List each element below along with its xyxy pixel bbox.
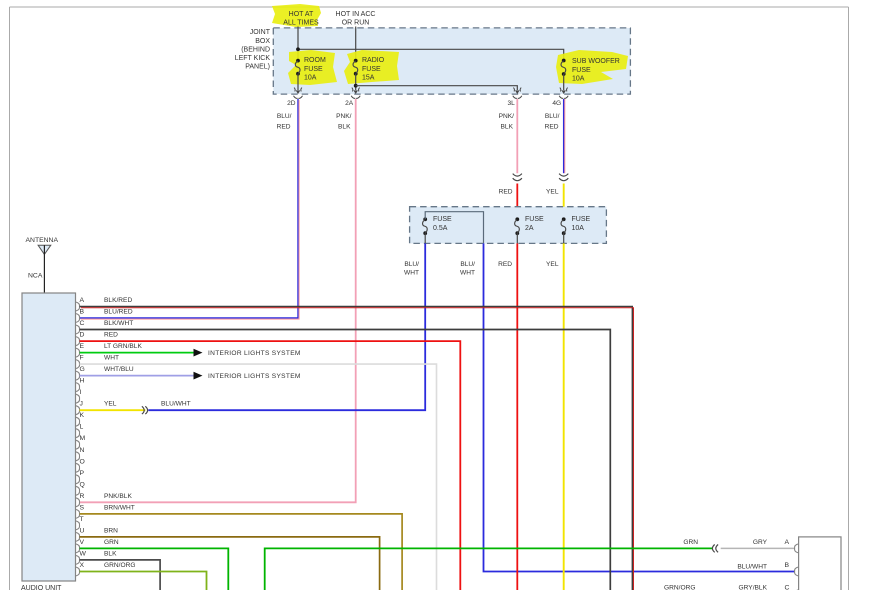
svg-text:X: X [80,562,85,569]
svg-text:N: N [80,447,85,454]
svg-text:BRN: BRN [104,527,118,534]
audio unit pin W [76,550,87,564]
svg-text:A: A [80,297,85,304]
audio unit pin B [76,309,85,323]
audio unit pin M [76,435,86,449]
svg-text:FUSE: FUSE [572,67,591,74]
svg-text:B: B [80,309,85,316]
svg-text:PNK/BLK: PNK/BLK [104,493,132,500]
audio unit pin S [76,504,85,518]
svg-text:V: V [80,539,85,546]
wire 4G BLU/RED (joint box to inline connector) [545,99,565,173]
audio unit connector block [21,293,76,590]
svg-text:GRN/ORG: GRN/ORG [104,562,136,569]
connector pin 2D [287,88,302,107]
svg-text:K: K [80,412,85,419]
wire pin X GRN/ORG (to off page bottom) [80,562,207,590]
svg-text:RED: RED [499,188,513,195]
svg-text:10A: 10A [572,225,585,232]
audio unit pin K [76,412,85,426]
svg-text:OR RUN: OR RUN [342,19,370,26]
wire pin E LT GRN/BLK to interior lights system [80,343,301,357]
svg-text:BOX: BOX [255,38,270,45]
internal jumper from fuse 0.5A top to second output [425,212,483,244]
svg-text:PNK/: PNK/ [336,113,352,120]
svg-text:U: U [80,527,85,534]
audio unit pin D [76,332,85,346]
audio unit pin J [76,401,83,415]
svg-text:S: S [80,504,85,511]
svg-text:R: R [80,493,85,500]
audio unit pin U [76,527,85,541]
inline connector: BLU/RED to YEL [559,174,568,181]
svg-text:L: L [80,424,84,431]
connector pin 2A [345,88,360,107]
svg-text:BLU/: BLU/ [545,113,560,120]
wire GRN (from off page up to inline connector) [265,539,713,590]
svg-text:GRY/BLK: GRY/BLK [739,584,768,590]
audio unit pin L [76,424,84,438]
svg-text:15A: 15A [362,75,375,82]
svg-text:F: F [80,355,84,362]
svg-text:ALL TIMES: ALL TIMES [283,19,319,26]
wire pin F WHT (to off page bottom) [80,355,437,590]
wire RED (connector to fuse 2A) [499,184,518,220]
junction node radio fuse output [354,84,358,88]
svg-text:WHT: WHT [460,270,475,277]
audio unit pin F [76,355,84,369]
svg-text:BLK/WHT: BLK/WHT [104,320,133,327]
svg-text:W: W [80,550,87,557]
label HOT AT ALL TIMES [283,11,319,27]
svg-text:YEL: YEL [104,401,117,408]
svg-text:SUB WOOFER: SUB WOOFER [572,58,620,65]
audio unit pin C [76,320,85,334]
label JOINT BOX (BEHIND LEFT KICK PANEL) [235,29,271,70]
svg-text:WHT: WHT [104,355,119,362]
svg-text:GRN/ORG: GRN/ORG [664,584,696,590]
svg-text:RADIO: RADIO [362,57,385,64]
svg-text:E: E [80,343,85,350]
svg-text:YEL: YEL [546,261,559,268]
svg-text:HOT IN ACC: HOT IN ACC [336,11,376,18]
audio unit pin H [76,378,85,392]
svg-text:(BEHIND: (BEHIND [241,46,270,53]
svg-text:2A: 2A [525,225,534,232]
svg-text:BLK: BLK [501,124,514,131]
audio unit pin A [76,297,85,311]
audio unit pin X [76,562,85,576]
wire pin S BRN/WHT (to off page bottom) [80,504,403,590]
wire: fuse 0.5A bottom lead [424,233,426,243]
svg-text:J: J [80,401,83,408]
svg-text:RED: RED [104,332,118,339]
wire pin D RED (to off page bottom) [80,332,461,590]
joint box (dashed enclosure, behind left kick panel) [273,28,630,94]
right connector block (sub woofer amplifier) [799,537,841,590]
fuse ROOM FUSE 10A [295,57,326,90]
svg-text:BRN/WHT: BRN/WHT [104,504,135,511]
svg-text:2A: 2A [345,100,354,107]
svg-text:O: O [80,458,85,465]
antenna symbol [26,237,59,293]
highlight: RADIO FUSE [344,50,399,84]
wire RED (fuse 2A output, off page bottom) [498,243,517,590]
svg-text:M: M [80,435,86,442]
svg-text:4G: 4G [552,100,561,107]
wire pin G WHT/BLU to interior lights system [80,366,301,380]
audio unit pin O [76,458,85,472]
fuse FUSE 2A [515,216,544,243]
connector pin 4G [552,88,568,107]
wire: HOT AT ALL TIMES feed [297,27,299,61]
wire GRY (connector to right connector pin A) [721,539,795,549]
right connector pin C row labels (GRN/ORG to GRY/BLK) [664,584,798,590]
svg-text:Q: Q [80,481,85,488]
svg-text:I: I [80,389,82,396]
svg-text:BLU/RED: BLU/RED [104,309,133,316]
svg-text:INTERIOR LIGHTS SYSTEM: INTERIOR LIGHTS SYSTEM [208,350,301,357]
wire BLU/WHT (fuse box jumper output to right connector pin B) [460,243,795,571]
svg-text:2D: 2D [287,100,296,107]
svg-text:H: H [80,378,85,385]
svg-text:ANTENNA: ANTENNA [26,237,59,244]
audio unit pin E [76,343,85,357]
svg-text:FUSE: FUSE [525,216,544,223]
audio unit pin R [76,493,85,507]
right connector pin B [785,562,799,576]
wire: radio fuse output bus to 3L [356,86,518,90]
svg-text:C: C [80,320,85,327]
audio unit pin T [76,516,84,530]
svg-text:T: T [80,516,84,523]
svg-text:BLK: BLK [338,124,351,131]
svg-text:BLU/: BLU/ [404,261,419,268]
svg-text:RED: RED [545,124,559,131]
wire pin W BLK (to off page bottom) [80,550,161,590]
audio unit pin N [76,447,85,461]
audio unit pin V [76,539,85,553]
audio unit pin I [76,389,82,403]
svg-text:FUSE: FUSE [362,66,381,73]
svg-text:10A: 10A [304,75,317,82]
wire 3L PNK/BLK (joint box to inline connector) [499,99,518,173]
svg-text:GRN: GRN [104,539,119,546]
svg-text:C: C [785,584,790,590]
svg-text:BLU/WHT: BLU/WHT [161,401,191,408]
fuse FUSE 0.5A [423,216,452,235]
fuse FUSE 10A [561,216,590,243]
svg-text:JOINT: JOINT [250,29,271,36]
svg-text:PNK/: PNK/ [499,113,515,120]
fuse RADIO FUSE 15A [353,57,385,90]
svg-text:BLU/: BLU/ [460,261,475,268]
highlight: HOT AT ALL TIMES [272,4,321,27]
svg-text:BLU/WHT: BLU/WHT [737,563,767,570]
svg-text:G: G [80,366,85,373]
wire: HOT IN ACC OR RUN feed [355,27,357,61]
svg-text:FUSE: FUSE [572,216,591,223]
svg-text:BLK/RED: BLK/RED [104,297,132,304]
svg-text:D: D [80,332,85,339]
svg-text:LT GRN/BLK: LT GRN/BLK [104,343,142,350]
svg-text:P: P [80,470,85,477]
svg-text:PANEL): PANEL) [245,64,270,71]
svg-text:A: A [785,539,790,546]
svg-text:B: B [785,562,790,569]
wire pin A BLK/RED (to off page bottom right) [80,297,634,590]
svg-text:WHT: WHT [404,270,419,277]
junction node on hot bus [296,47,300,51]
label HOT IN ACC OR RUN [336,11,376,27]
fuse SUB WOOFER FUSE 10A [561,58,620,90]
audio unit pin P [76,470,85,484]
connector pin 3L [507,88,521,107]
svg-text:HOT AT: HOT AT [289,11,314,18]
svg-text:RED: RED [498,261,512,268]
svg-text:RED: RED [277,124,291,131]
highlight: SUB WOOFER FUSE [556,50,628,84]
audio unit pin G [76,366,85,380]
svg-text:GRN: GRN [683,539,698,546]
inline connector GRN to GRY (row to sub woofer) [712,545,718,553]
svg-text:AUDIO UNIT: AUDIO UNIT [21,585,62,590]
inline connector YEL to BLU/WHT (row J) [142,406,148,414]
wire YEL (fuse 10A output, off page bottom) [546,243,564,590]
svg-text:3L: 3L [507,100,515,107]
svg-text:BLU/: BLU/ [277,113,292,120]
highlight: ROOM FUSE [288,50,337,85]
right connector pin A [785,539,799,553]
svg-text:0.5A: 0.5A [433,225,448,232]
wire pin U BRN (to off page bottom) [80,527,380,590]
svg-text:WHT/BLU: WHT/BLU [104,366,134,373]
wire YEL (connector to fuse 10A) [546,184,564,220]
svg-text:BLK: BLK [104,550,117,557]
wire 2A PNK/BLK (joint box to audio unit pin R) [80,99,356,502]
svg-text:10A: 10A [572,76,585,83]
wire pin V GRN (to off page bottom) [80,539,229,590]
wire pin J YEL to inline connector [80,401,191,411]
svg-text:INTERIOR LIGHTS SYSTEM: INTERIOR LIGHTS SYSTEM [208,373,301,380]
svg-text:FUSE: FUSE [304,66,323,73]
wire pin C BLK/WHT (to off page bottom) [80,320,611,590]
fuse box (dashed enclosure) [410,207,607,244]
svg-text:FUSE: FUSE [433,216,452,223]
svg-text:ROOM: ROOM [304,57,326,64]
wire 2D BLU/RED (joint box to audio unit pin B) [80,99,300,319]
svg-text:LEFT KICK: LEFT KICK [235,55,271,62]
wire BLU/WHT (fuse 0.5A to J-row inline connector) [148,243,425,410]
audio unit pin Q [76,481,85,495]
wire: hot bus to sub woofer fuse [298,49,564,60]
inline connector: PNK/BLK to RED [513,174,522,181]
svg-text:GRY: GRY [753,539,768,546]
svg-text:YEL: YEL [546,188,559,195]
svg-text:NCA: NCA [28,272,43,279]
